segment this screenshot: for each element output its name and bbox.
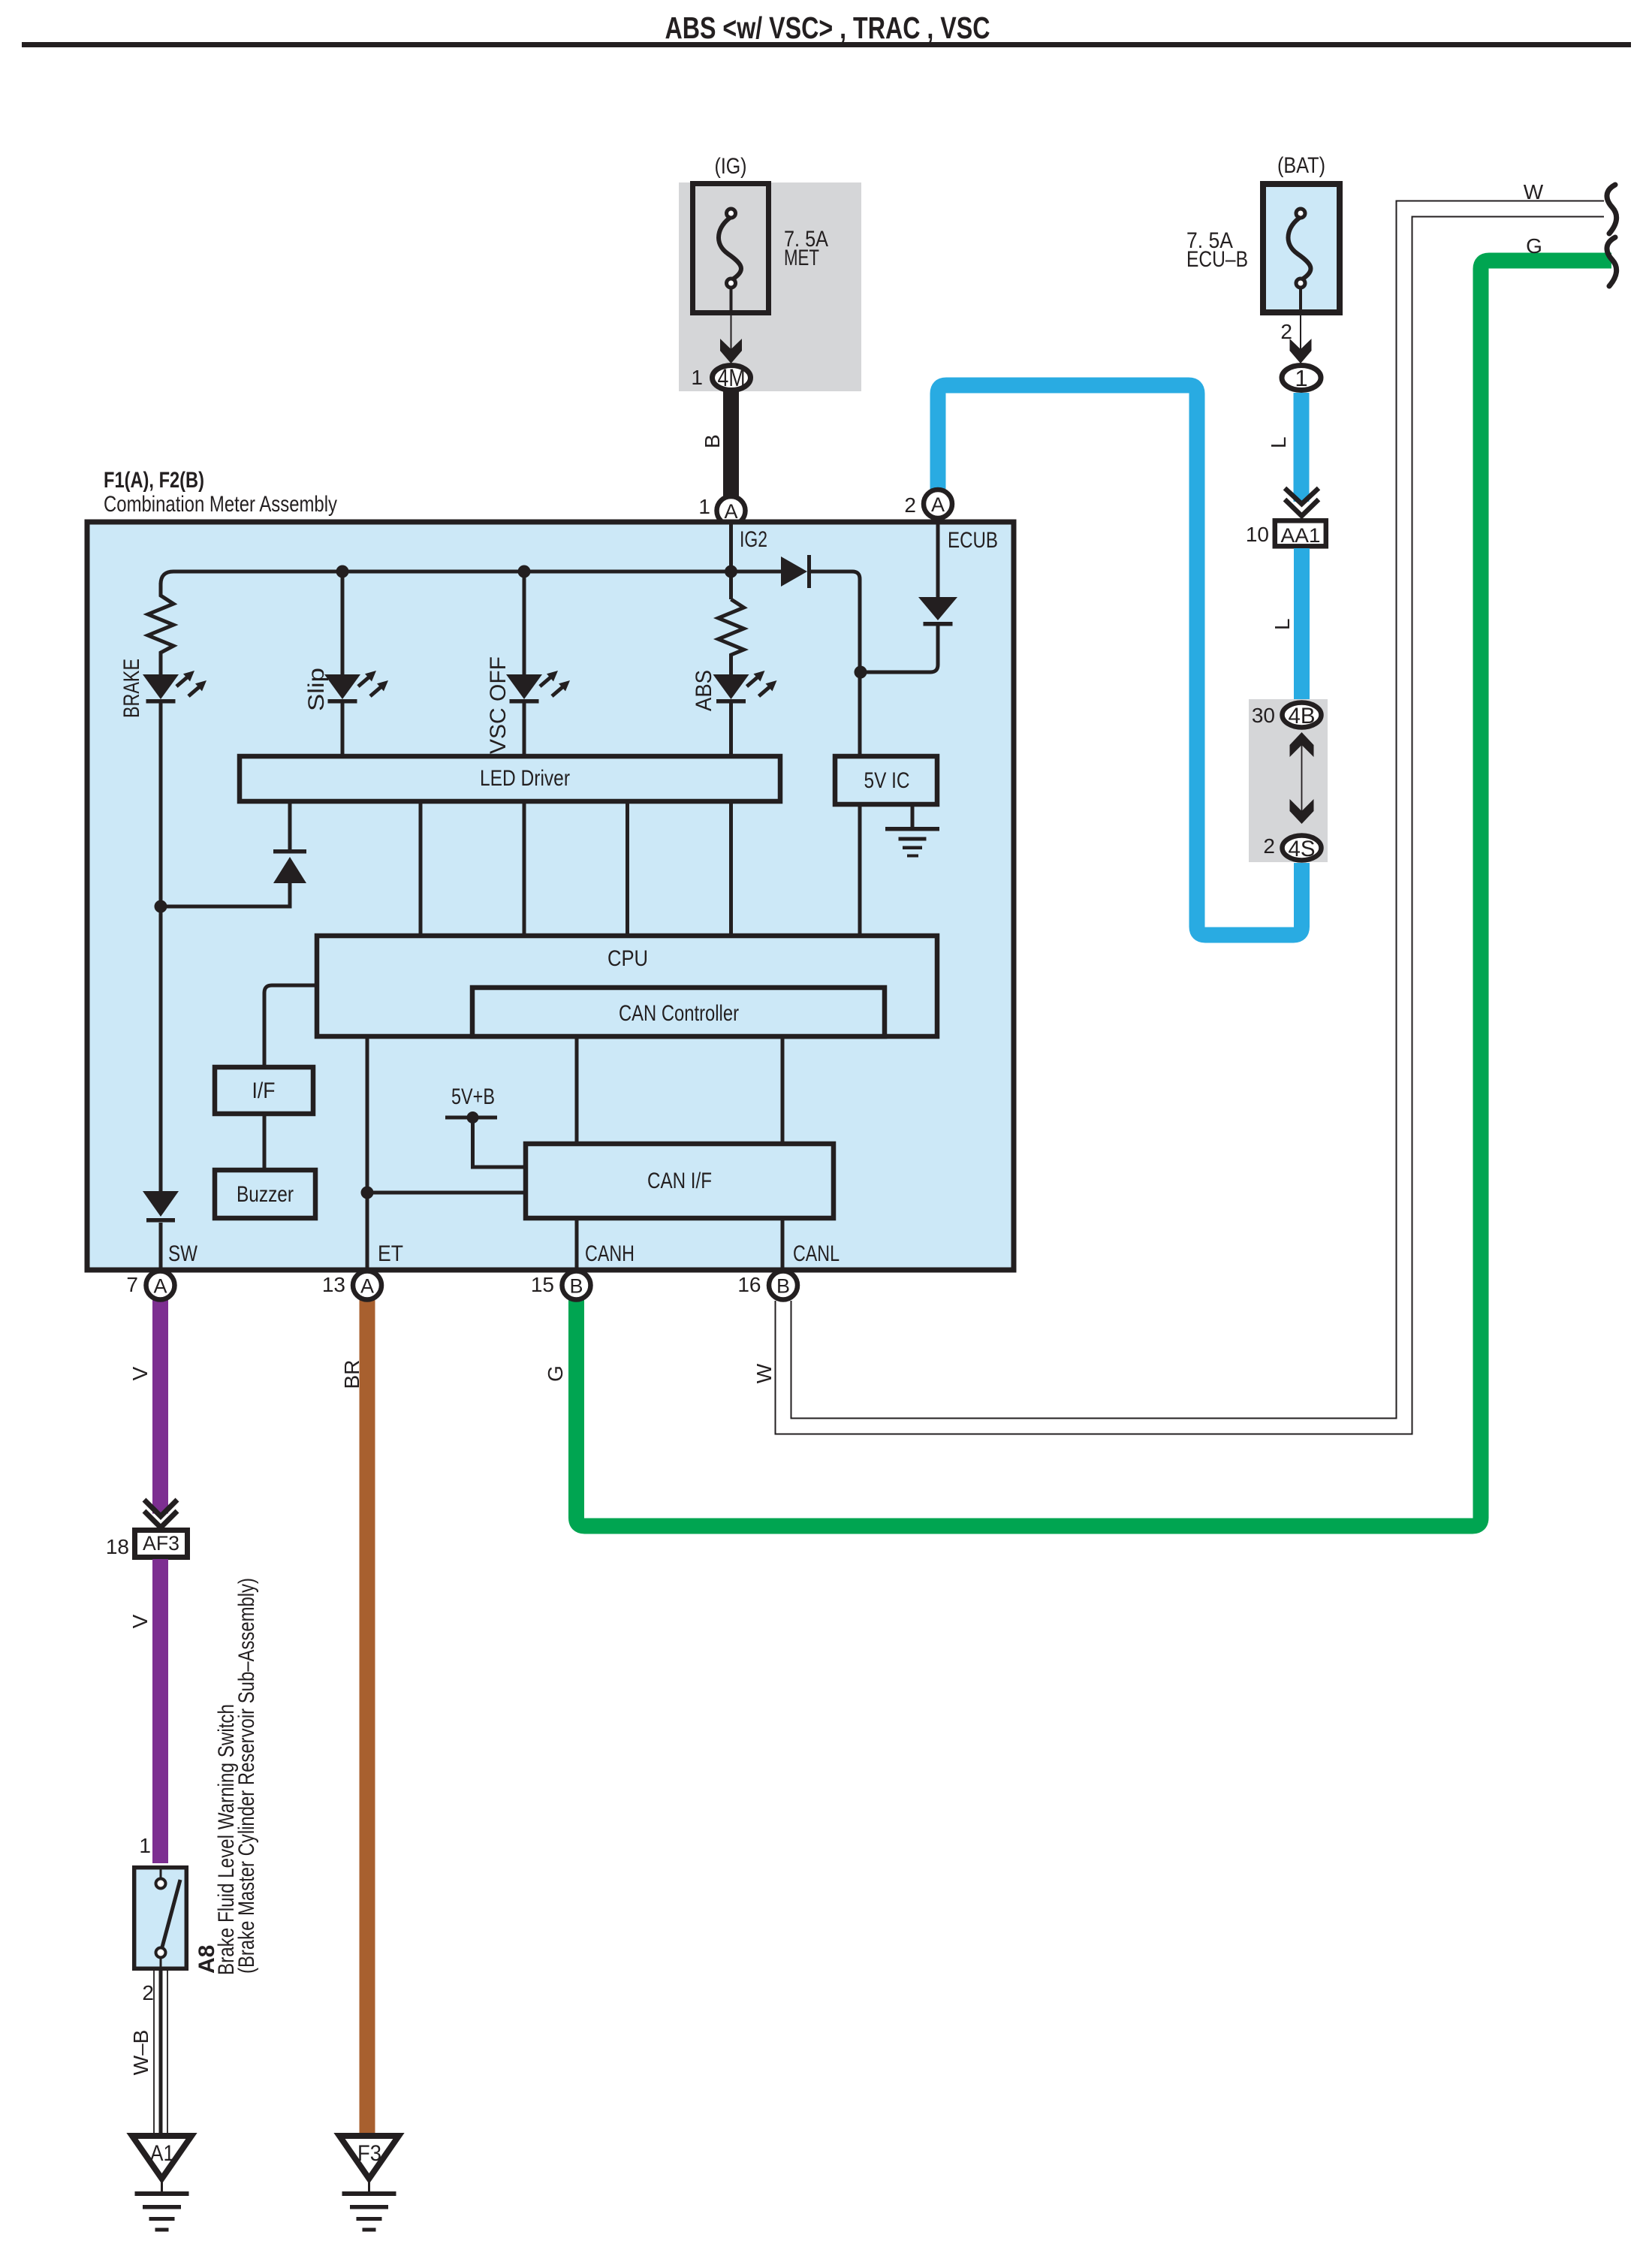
- wire CPU to I/F: [264, 985, 315, 1065]
- wire LED driver to CPU lines: [290, 804, 731, 933]
- svg-text:1: 1: [698, 495, 710, 518]
- in-line arrows between 4B and 4S: [1290, 732, 1314, 824]
- svg-text:V: V: [128, 1614, 152, 1628]
- I/F box: [215, 1067, 313, 1114]
- connector B pin 15 (CANH): [531, 1271, 591, 1300]
- svg-text:B: B: [776, 1275, 790, 1298]
- svg-text:W: W: [752, 1363, 776, 1383]
- svg-text:ECU–B: ECU–B: [1186, 247, 1248, 272]
- svg-text:Combination Meter Assembly: Combination Meter Assembly: [104, 492, 337, 517]
- svg-text:ABS <w/ VSC> , TRAC , VSC: ABS <w/ VSC> , TRAC , VSC: [665, 11, 990, 45]
- CPU box: [317, 936, 937, 1036]
- svg-text:I/F: I/F: [252, 1078, 276, 1103]
- connector A pin 2 (ECUB): [904, 490, 952, 518]
- off-page squiggle W: [1607, 185, 1617, 234]
- svg-text:V: V: [128, 1366, 152, 1380]
- connector A pin 13 (ET): [322, 1271, 381, 1300]
- diode (SW branch): [143, 1191, 179, 1270]
- svg-text:2: 2: [142, 1981, 154, 2004]
- wire V (violet) lower: [128, 1559, 168, 1863]
- connector 4B pin 30: [1252, 703, 1322, 729]
- svg-text:A: A: [153, 1275, 167, 1298]
- wire 5V IC to CPU: [858, 807, 862, 933]
- Buzzer box: [215, 1170, 315, 1218]
- wire abs to LED driver: [729, 703, 733, 754]
- node 5V+B: [445, 1084, 523, 1167]
- svg-text:IG2: IG2: [740, 527, 767, 552]
- wire diode to BRAKE line: [161, 883, 290, 906]
- svg-text:BR: BR: [340, 1360, 363, 1389]
- svg-text:15: 15: [531, 1273, 554, 1296]
- svg-text:G: G: [544, 1365, 567, 1382]
- ground A1: [132, 2136, 191, 2232]
- wire IG2 bus: [161, 522, 860, 754]
- svg-text:CAN I/F: CAN I/F: [647, 1169, 712, 1193]
- wire L (blue) 4S loop to meter ECUB pin: [938, 385, 1302, 935]
- svg-text:ET: ET: [378, 1241, 403, 1266]
- CAN Controller box: [472, 988, 885, 1036]
- resistor (ABS branch): [719, 599, 744, 674]
- fuse 7.5A MET (IG): [679, 154, 861, 391]
- svg-text:F1(A), F2(B): F1(A), F2(B): [104, 468, 204, 493]
- svg-text:L: L: [1271, 618, 1294, 630]
- svg-text:(Brake Master Cylinder Reservo: (Brake Master Cylinder Reservoir Sub–Ass…: [234, 1578, 259, 1974]
- svg-text:5V+B: 5V+B: [451, 1084, 495, 1109]
- svg-text:4B: 4B: [1289, 704, 1316, 728]
- svg-text:CANH: CANH: [585, 1241, 635, 1266]
- junction dot on BRAKE line: [155, 900, 167, 913]
- diode (LED driver return): [273, 849, 306, 883]
- wire ECUB pin line: [936, 522, 940, 597]
- svg-text:30: 30: [1252, 704, 1275, 727]
- svg-text:5V IC: 5V IC: [864, 768, 910, 793]
- wire from fuse ECU-B to connector 1: [1280, 288, 1311, 363]
- wire L (blue) fuse to AA1: [1294, 393, 1310, 502]
- svg-text:(IG): (IG): [715, 154, 747, 179]
- ground F3: [339, 2136, 399, 2232]
- svg-text:G: G: [1526, 234, 1542, 258]
- LED Driver box: [240, 756, 780, 801]
- LED BRAKE: [143, 671, 206, 704]
- svg-text:A: A: [931, 493, 945, 516]
- svg-text:W–B: W–B: [129, 2030, 152, 2076]
- svg-text:Buzzer: Buzzer: [237, 1182, 294, 1207]
- wire from fuse MET to connector 4M: [720, 288, 742, 363]
- svg-text:BRAKE: BRAKE: [119, 659, 144, 718]
- svg-text:16: 16: [737, 1273, 761, 1296]
- connector 4S pin 2: [1263, 834, 1321, 861]
- in-line connector 4B/4S gray block: [1249, 699, 1328, 862]
- LED VSC OFF: [506, 671, 570, 704]
- fuse 7.5A ECU-B (BAT): [1186, 153, 1340, 312]
- connector A pin 7 (SW): [126, 1271, 174, 1300]
- wire L (blue) AA1 to 4B: [1271, 548, 1310, 700]
- switch A8 Brake Fluid Level Warning Switch: [134, 1868, 187, 1971]
- svg-text:VSC OFF: VSC OFF: [486, 656, 511, 754]
- svg-text:Slip: Slip: [304, 668, 329, 711]
- wire vsc-off to LED driver: [523, 703, 526, 754]
- junction dot ET: [361, 1187, 374, 1199]
- wire vsc-off branch: [523, 572, 526, 674]
- wire CANL line: [781, 1039, 785, 1270]
- connector A pin 1 (meter IG2): [698, 495, 745, 525]
- svg-text:CANL: CANL: [793, 1241, 840, 1266]
- node IG2 label: [740, 527, 767, 552]
- junction dot slip branch: [336, 566, 349, 578]
- wire ET line: [366, 1039, 369, 1270]
- CAN I/F box: [526, 1144, 834, 1218]
- connector chevrons into AF3: [144, 1500, 177, 1528]
- svg-text:(BAT): (BAT): [1277, 153, 1325, 178]
- svg-text:W: W: [1524, 180, 1544, 204]
- wire I/F to Buzzer: [263, 1116, 267, 1168]
- wire G (green) CANH to off-page: [544, 261, 1611, 1526]
- svg-text:1: 1: [139, 1834, 151, 1857]
- LED ABS: [713, 671, 777, 704]
- svg-text:LED Driver: LED Driver: [480, 766, 570, 791]
- connector 1 (oval): [1282, 365, 1321, 391]
- svg-text:AF3: AF3: [143, 1532, 179, 1555]
- svg-text:1: 1: [691, 366, 703, 389]
- svg-text:F3: F3: [357, 2141, 381, 2166]
- wire ECUB diode to 5V node: [861, 626, 938, 672]
- svg-text:ABS: ABS: [692, 670, 716, 711]
- svg-text:CPU: CPU: [607, 946, 648, 971]
- resistor (BRAKE branch): [148, 583, 173, 674]
- svg-text:A: A: [360, 1275, 374, 1298]
- svg-text:B: B: [701, 434, 724, 448]
- svg-text:AA1: AA1: [1281, 524, 1321, 547]
- junction dot vsc-off branch: [518, 566, 531, 578]
- svg-text:2: 2: [904, 493, 916, 517]
- svg-text:MET: MET: [784, 246, 819, 270]
- wire V (violet) upper: [128, 1299, 168, 1514]
- ground (5V IC): [885, 807, 939, 858]
- svg-text:ECUB: ECUB: [948, 528, 998, 553]
- 5V IC box: [835, 756, 937, 804]
- connector AA1 pin 10: [1246, 520, 1326, 547]
- svg-text:1: 1: [1295, 365, 1307, 391]
- connector chevrons into AA1: [1285, 488, 1319, 516]
- svg-text:SW: SW: [168, 1241, 198, 1266]
- diode (ECUB): [918, 597, 957, 626]
- junction dot abs branch: [725, 566, 737, 578]
- svg-text:4M: 4M: [718, 364, 746, 391]
- wire slip to LED driver: [341, 703, 345, 754]
- title ABS w/ VSC , TRAC , VSC: [22, 11, 1631, 47]
- wire slip branch: [341, 572, 345, 674]
- svg-text:7: 7: [126, 1273, 138, 1296]
- svg-text:10: 10: [1246, 523, 1269, 546]
- svg-text:13: 13: [322, 1273, 345, 1296]
- svg-text:2: 2: [1263, 834, 1275, 858]
- connector AF3 pin 18: [106, 1531, 188, 1559]
- svg-text:CAN Controller: CAN Controller: [619, 1001, 739, 1026]
- connector 4M pin 1: [691, 364, 750, 391]
- LED Slip: [324, 671, 388, 704]
- svg-text:4S: 4S: [1289, 837, 1316, 861]
- wire ET to CAN I/F: [367, 1191, 523, 1195]
- wire BR (brown): [340, 1299, 375, 2134]
- svg-text:18: 18: [106, 1535, 129, 1558]
- svg-text:A1: A1: [150, 2141, 174, 2166]
- svg-text:L: L: [1267, 436, 1290, 448]
- wire W (white) CANL to off-page: [752, 209, 1604, 1426]
- wire CANH line: [575, 1039, 579, 1270]
- connector B pin 16 (CANL): [737, 1271, 797, 1300]
- diode (IG2 bus): [781, 555, 811, 588]
- combination meter assembly box F1(A), F2(B): [87, 468, 1014, 1270]
- wire W-B: [129, 1971, 167, 2133]
- wire BRAKE branch to SW diode: [159, 703, 163, 1191]
- wire B (black): [701, 391, 739, 499]
- off-page squiggle G: [1607, 237, 1617, 286]
- svg-text:B: B: [569, 1275, 583, 1298]
- junction dot 5V node: [855, 666, 867, 679]
